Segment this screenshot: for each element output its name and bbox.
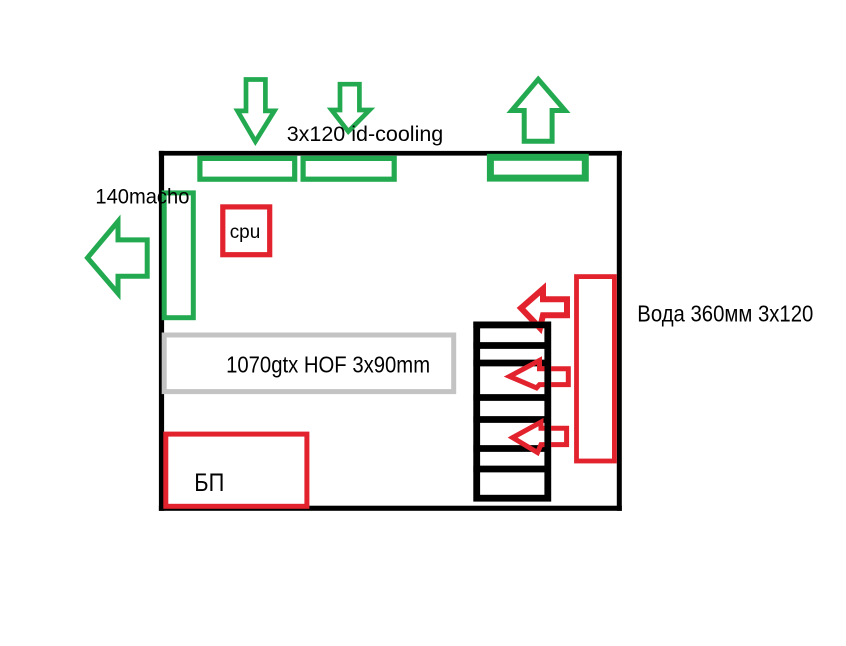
svg-text:140macho: 140macho <box>95 184 189 208</box>
red arrow left (bottom) <box>513 422 567 452</box>
svg-text:1070gtx HOF 3x90mm: 1070gtx HOF 3x90mm <box>226 352 430 378</box>
red PSU box (БП) <box>166 434 307 506</box>
svg-text:cpu: cpu <box>230 221 261 243</box>
green fan rect top 1 <box>200 158 295 179</box>
svg-text:Вода 360мм 3x120: Вода 360мм 3x120 <box>637 301 813 327</box>
red cpu box <box>223 207 270 255</box>
ladder top edge redrawn over red arrow head <box>473 322 551 329</box>
case outline (PC case) <box>159 151 622 156</box>
ladder right edge redrawn over red shafts <box>545 322 552 502</box>
svg-text:3x120 id-cooling: 3x120 id-cooling <box>287 122 444 146</box>
grey gpu box <box>164 335 454 392</box>
red water radiator rect (360mm) <box>577 277 615 461</box>
green fan rect top 2 <box>303 158 394 179</box>
svg-text:БП: БП <box>194 469 224 497</box>
green fan rect top 3 (exhaust) <box>490 157 585 178</box>
green down arrow 1 <box>238 80 275 142</box>
green radiator rect left (140macho) <box>164 193 193 318</box>
red arrow left (top, water intake) <box>521 289 567 328</box>
green up arrow (exhaust) <box>512 79 565 141</box>
green down arrow 2 <box>332 84 370 131</box>
radiator ladder (HDD/рад stack) <box>473 325 551 498</box>
red arrow left (middle) <box>510 360 569 388</box>
green left arrow (140macho exhaust) <box>88 221 148 293</box>
